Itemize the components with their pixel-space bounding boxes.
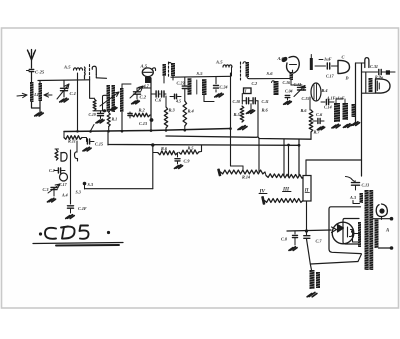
bus chassis [64,129,231,132]
capacitor C7 [304,229,323,243]
wire [288,145,290,176]
resistor R6 mid [153,146,178,155]
junction dots bus [76,127,232,132]
capacitor C25 [27,69,45,78]
label A3 [349,195,356,200]
output terminal bottom [379,246,394,250]
wire [70,150,72,168]
capacitor C6 right [313,112,324,124]
svg-text:R.3: R.3 [169,108,176,113]
svg-text:C.13: C.13 [139,121,147,126]
ground below R5 [238,126,247,130]
coil below U2 [290,72,294,80]
capacitor C12 variable [294,82,310,101]
ground input tank [35,112,43,116]
winding aux stage1 [110,88,123,131]
svg-text:C: C [342,55,345,60]
loop circle osc [60,173,68,181]
ground below C18 [66,215,74,219]
svg-text:R.6: R.6 [262,108,269,113]
svg-text:C.14: C.14 [324,105,332,110]
svg-text:C.3: C.3 [43,187,49,192]
wire [307,231,312,270]
coil L1a [30,82,34,102]
svg-text:4.5: 4.5 [175,99,181,104]
label S6 [267,71,274,76]
svg-text:R.4: R.4 [188,109,195,114]
resistor R5 mid [179,145,202,154]
resistor R1 [107,113,117,132]
core dashes stage3 [240,62,242,80]
capacitor C15 bus [82,138,103,147]
ground stage4 [284,101,292,104]
wire [362,92,376,94]
svg-text:C.9: C.9 [184,159,191,164]
label C1 input [33,92,39,97]
capacitor C31 [362,69,395,74]
capacitor pair stage3 b [249,98,269,104]
ground below R17 [307,292,317,296]
IF1 winding a [107,85,111,112]
antenna [28,50,36,69]
resistor II box [303,176,311,202]
resistor R3 vertical [164,96,175,131]
svg-text:C.10: C.10 [233,100,241,104]
svg-text:A.5: A.5 [63,65,71,70]
svg-text:D: D [345,76,349,81]
wire vertical left [356,63,365,122]
loop D osc [61,153,67,162]
svg-text:C.19: C.19 [89,113,96,117]
title letter 5 [80,226,89,239]
capacitor C19 [89,111,104,119]
svg-text:L1: L1 [33,92,39,97]
wire [247,77,291,79]
title underline [33,243,123,244]
label A1F [326,96,345,101]
wire [32,101,41,112]
svg-text:R.1: R.1 [112,117,118,122]
svg-text:C.17: C.17 [59,182,68,187]
wire top stage2 [171,75,231,78]
label IV [259,189,268,195]
wire [291,80,302,85]
ground below C6 right [317,126,324,129]
svg-text:C.31: C.31 [370,64,378,69]
svg-text:A.4: A.4 [61,193,68,198]
capacitor C13 left [128,112,132,118]
label R9 [375,76,384,80]
wire switch out [85,143,155,188]
wire [122,84,131,88]
label C15 tube [143,84,150,89]
wire [365,72,367,93]
wire [204,95,214,102]
resistor R2 [132,108,151,117]
capacitor aux [162,91,166,97]
resistor R4 vertical [183,90,195,127]
wire vertical right [361,63,363,176]
wire [150,78,152,131]
winding right c [352,104,357,117]
title underline 2 [56,244,119,247]
IF1 winding b [112,85,116,112]
svg-text:R.6: R.6 [301,108,308,113]
capacitor C24 [214,77,228,93]
tube U1 base box [145,77,151,83]
coil A5 stage1 [74,68,83,131]
svg-text:C.6: C.6 [155,98,162,103]
secondary winding [375,220,379,249]
ground below winding c [351,122,359,126]
svg-text:C.6: C.6 [316,112,323,117]
ground stage3 caps [246,104,254,114]
label III [282,187,291,193]
wire [164,76,173,83]
IF2 core dashes [168,62,170,76]
wire [306,201,308,231]
capacitor plate coupling [310,55,313,71]
capacitor C2 variable [130,86,147,100]
ground below C15 [83,147,91,151]
svg-text:C.8: C.8 [281,237,288,242]
svg-text:C.04: C.04 [285,90,293,94]
wire [103,95,108,111]
S5 winding b [197,79,207,95]
ground below C9 [174,165,182,169]
coil L1b [39,83,43,101]
winding det [369,78,373,92]
tube U5 output [332,222,354,244]
svg-text:C.12: C.12 [294,82,302,87]
capacitor C9 [175,153,190,164]
svg-text:B.4: B.4 [321,88,328,93]
ground below C1 [60,98,68,102]
wire [258,101,269,137]
ground below C8 [289,247,297,251]
output transformer primary [365,190,369,270]
wire [31,78,33,82]
svg-text:C.1F: C.1F [78,206,87,211]
output terminal top [373,217,393,221]
interstage winding b [343,103,349,120]
label A5 tube1 [140,64,148,69]
interstage winding a [334,103,340,122]
capacitor C23 [177,77,188,89]
svg-text:C.15: C.15 [95,142,103,147]
speaker balloon [376,204,387,220]
capacitor C18 [68,168,87,213]
terminal blob divider [262,197,265,204]
svg-text:A.5: A.5 [215,60,223,65]
tube U3 oval [311,83,327,101]
cathode loop inner [343,219,359,245]
resistor R7 vertical [309,110,320,135]
svg-text:C.2: C.2 [140,95,147,100]
capacitor pair stage3 a [233,98,249,104]
capacitor C6 stage1 [151,91,162,103]
terminal blob R14 [218,169,221,175]
title letter D [61,227,75,239]
wire [336,99,345,103]
resistor R17 [310,270,321,289]
svg-text:R.14: R.14 [242,175,250,180]
capacitor C3 variable [43,184,61,196]
svg-text:C.15: C.15 [302,96,310,101]
svg-text:S.3: S.3 [76,190,81,195]
capacitor C2x [49,168,65,173]
switch S3 [76,182,93,195]
label C17 [59,182,68,187]
hook loop stage1 [92,66,106,78]
svg-text:S.5: S.5 [197,71,204,76]
speck [21,34,23,36]
resistor R11 [64,132,82,144]
capacitor C8 [281,231,298,245]
label 1uF [319,57,332,62]
capacitor C16 [283,81,293,100]
capacitor C17 coupling [315,63,338,79]
capacitor C1 variable [57,81,76,100]
title dot right [107,231,110,234]
wire plate loop outer [329,207,361,254]
label A5 coil 1 [63,65,71,70]
resistor R14 chain a [221,170,266,179]
loop top right [365,58,369,68]
wire feedback [306,160,362,176]
wire stage1 plate [137,87,151,89]
arrow through IF1 [100,92,119,106]
wire [39,81,41,84]
bus B+ [166,133,311,140]
wire top bus stage1 [38,79,90,82]
wire grid [287,227,337,233]
label C31 [370,64,378,69]
svg-text:C.7: C.7 [316,239,323,244]
svg-text:R.5: R.5 [234,112,241,117]
title dot left [39,232,42,235]
label A6 [277,56,285,61]
winding IF3 secondary [243,62,249,77]
svg-text:R.2: R.2 [139,108,146,113]
tube U2 [281,56,300,80]
hook top [75,141,78,161]
wire [231,166,244,170]
resistor R5 vertical [234,106,244,122]
svg-text:C.16: C.16 [283,81,291,85]
svg-text:C.23: C.23 [177,81,185,86]
tube U4 D-shape [376,79,391,93]
bus C [108,131,300,147]
small resistor top [55,149,59,160]
svg-text:C-25: C-25 [35,70,45,75]
svg-text:C.13: C.13 [362,183,370,188]
winding cathode bar [358,222,361,247]
coil spring stage1 [84,67,87,79]
wire cathode [311,254,362,264]
ground below C24 [215,93,223,97]
svg-text:A.3: A.3 [349,195,356,200]
arrow coupling [17,93,27,97]
capacitor C13 right [346,177,370,191]
S5 winding a [188,78,192,95]
svg-text:S.3: S.3 [88,182,93,187]
wire [184,126,186,131]
svg-text:S.6: S.6 [267,71,274,76]
IF2 winding a [163,64,167,76]
tube U1 [142,68,155,77]
core dashes stage1 [89,65,91,75]
wire osc padder [90,77,107,113]
capacitor small stage2 [170,94,181,103]
ground interstage b [343,124,351,128]
IF2 winding b [169,62,176,76]
ground below C3 [47,198,55,202]
coil A5 stage3 [223,65,232,76]
output transformer core [369,190,373,270]
svg-text:C.2: C.2 [252,81,258,86]
label A plus [61,193,68,198]
svg-text:R.11: R.11 [68,139,76,144]
wire [258,139,260,172]
S6 winding [272,81,279,95]
ground below C19 [91,119,105,131]
ground below C2 [132,100,140,103]
svg-text:C.17: C.17 [326,74,335,79]
wire vertical right block [298,139,300,176]
resistor divider chain [265,199,304,203]
ground interstage a [332,124,340,128]
coil A3 [353,193,363,204]
title letter C [45,228,56,239]
svg-text:C.24: C.24 [220,85,228,90]
svg-text:C.1: C.1 [70,91,77,96]
arrow coupling right [44,93,52,97]
label A5 coil 2 [215,60,223,65]
capacitor C14 [321,100,334,110]
label S5 [197,71,204,76]
wire [283,139,285,176]
svg-text:A: A [385,229,389,234]
wire [301,97,311,113]
socket box [351,230,360,242]
svg-text:C.11: C.11 [262,100,269,104]
label C above diode [342,55,345,60]
label C13 [139,118,153,126]
capacitor C21 box [242,81,257,104]
wire [230,73,232,166]
svg-text:1uF: 1uF [324,57,332,62]
resistor R14 chain b [265,172,304,178]
diode D [338,60,350,80]
label A output [385,229,389,234]
